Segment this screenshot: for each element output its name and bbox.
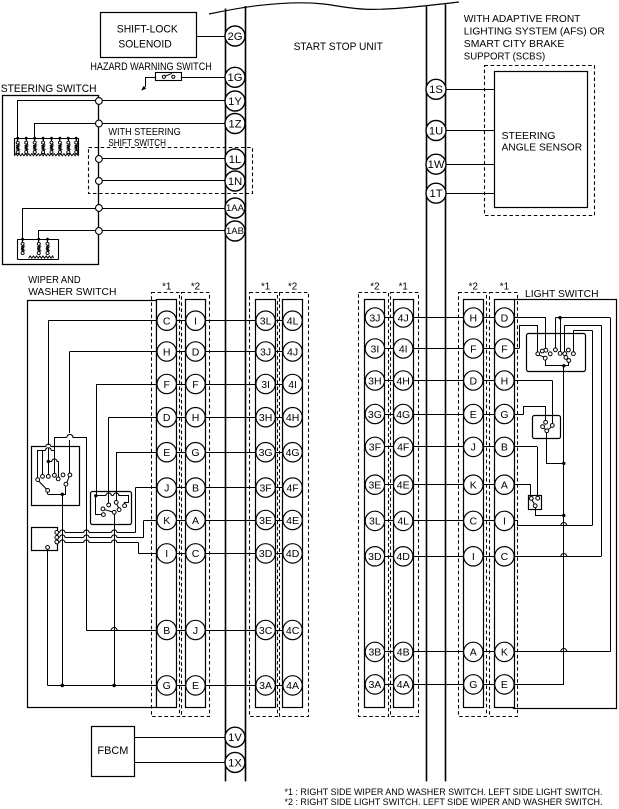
pin 1AB	[225, 221, 245, 241]
pin 1T	[426, 183, 446, 203]
wire node 1AA to audio switch	[23, 209, 96, 240]
svg-text:B: B	[163, 625, 170, 637]
terminal H	[186, 408, 205, 427]
wire pin 1U to sensor	[446, 130, 495, 132]
svg-text:4D: 4D	[396, 551, 410, 563]
wire row segment	[365, 446, 514, 448]
wiper switch I branch	[138, 543, 140, 554]
wire row segment	[365, 684, 514, 686]
svg-text:1Z: 1Z	[228, 118, 241, 130]
washer motor block 3	[32, 528, 58, 551]
svg-text:4B: 4B	[397, 647, 410, 659]
terminal 3J	[256, 342, 275, 361]
wire row 3E-4E-K-A	[365, 484, 531, 486]
wiper switch E branch	[116, 452, 118, 500]
terminal I	[495, 511, 514, 530]
crossover wire to I	[58, 542, 61, 544]
svg-text:G: G	[163, 680, 171, 692]
terminal 3J	[365, 308, 384, 327]
node 1N on steering switch	[96, 178, 103, 185]
svg-text:*2: *2	[370, 282, 379, 293]
svg-text:*1: *1	[162, 282, 171, 293]
svg-text:4J: 4J	[398, 312, 409, 324]
option dashed box (AFS/SCBS)	[485, 66, 595, 216]
svg-text:STEERING SWITCH: STEERING SWITCH	[1, 83, 97, 95]
svg-text:3G: 3G	[368, 409, 382, 421]
terminal 3A	[365, 675, 384, 694]
wire harness curve (top)	[209, 2, 459, 14]
steering angle sensor box	[495, 72, 588, 208]
wire row E-G-3G-4G	[116, 452, 302, 454]
terminal E	[495, 675, 514, 694]
wire row segment	[365, 317, 514, 319]
pin 1Y	[225, 91, 245, 111]
svg-text:H: H	[501, 375, 509, 387]
svg-text:I: I	[503, 516, 506, 528]
terminal 4G	[394, 404, 413, 423]
terminal I	[464, 547, 483, 566]
svg-text:1G: 1G	[228, 72, 243, 84]
wiper switch bracket 1	[38, 451, 46, 478]
svg-text:C: C	[192, 548, 200, 560]
wire row F-F-3I-4I	[96, 384, 302, 386]
pin 1X	[225, 752, 245, 772]
svg-text:1N: 1N	[228, 176, 242, 188]
wiper switch contact block 1	[32, 447, 80, 506]
svg-text:LIGHT SWITCH: LIGHT SWITCH	[525, 289, 599, 300]
connector column *2 dashed box	[280, 293, 309, 717]
wire washer block to G row	[47, 549, 49, 685]
svg-text:4D: 4D	[286, 548, 300, 560]
svg-text:A: A	[192, 515, 199, 527]
terminal 4E	[394, 475, 413, 494]
terminal 4I	[283, 374, 302, 393]
svg-text:4J: 4J	[287, 346, 298, 358]
pin 1W	[426, 154, 446, 174]
terminal 4J	[394, 308, 413, 327]
svg-text:1L: 1L	[229, 154, 241, 166]
wire row 3D-4D-I-C	[365, 556, 601, 558]
crossover on B row	[111, 628, 117, 631]
light switch contact block 2	[533, 416, 561, 439]
wiper switch K branch	[143, 521, 145, 538]
terminal K	[464, 475, 483, 494]
light switch rail	[545, 365, 569, 367]
svg-text:E: E	[501, 679, 508, 691]
terminal 4D	[394, 547, 413, 566]
svg-text:1Y: 1Y	[228, 96, 242, 108]
wire row segment	[365, 651, 514, 653]
terminal C	[464, 511, 483, 530]
terminal A	[495, 475, 514, 494]
terminal 4J	[283, 342, 302, 361]
wiper switch common rail	[48, 494, 66, 496]
svg-text:4C: 4C	[286, 625, 300, 637]
svg-text:3I: 3I	[371, 343, 380, 355]
terminal F	[157, 374, 176, 393]
svg-text:4E: 4E	[286, 515, 299, 527]
svg-text:1V: 1V	[228, 732, 242, 744]
terminal J	[186, 620, 205, 639]
svg-text:3F: 3F	[259, 482, 271, 494]
node 1L on steering switch	[96, 156, 103, 163]
svg-text:FBCM: FBCM	[97, 745, 128, 757]
pin 1AA	[225, 198, 245, 218]
terminal 3I	[256, 374, 275, 393]
washer switch contact block 2	[91, 492, 132, 525]
terminal 3D	[256, 544, 275, 563]
wire row G-E-3A-4A	[48, 685, 303, 687]
connector column *1 dashed box	[250, 293, 278, 717]
terminal J	[157, 478, 176, 497]
terminal G	[495, 404, 514, 423]
svg-text:3D: 3D	[259, 548, 273, 560]
shift-lock solenoid box	[101, 13, 197, 58]
terminal 4H	[283, 408, 302, 427]
wire node 1Z to pin 1Z	[102, 123, 225, 125]
terminal C	[495, 547, 514, 566]
svg-text:I: I	[194, 316, 197, 328]
crossover on I row	[561, 523, 567, 526]
svg-text:J: J	[193, 625, 198, 637]
terminal 4L	[283, 311, 302, 330]
svg-text:A: A	[470, 647, 477, 659]
svg-text:*2: *2	[191, 282, 200, 293]
crossover on K row	[561, 649, 567, 652]
wire right bus line 1	[426, 7, 428, 782]
terminal 3L	[365, 511, 384, 530]
wire node 1N to pin 1N	[102, 180, 225, 182]
terminal E	[186, 676, 205, 695]
wiper switch J branch	[135, 488, 137, 533]
pin 1Z	[225, 114, 245, 134]
wire row segment	[151, 487, 302, 489]
terminal 3I	[365, 339, 384, 358]
svg-text:1W: 1W	[428, 159, 445, 171]
terminal G	[464, 675, 483, 694]
connector column body	[495, 300, 515, 708]
terminal 3B	[365, 642, 384, 661]
hazard warning switch symbol	[156, 73, 182, 81]
svg-text:1S: 1S	[429, 84, 443, 96]
node 1AB on steering switch	[96, 228, 103, 235]
svg-text:SHIFT-LOCK: SHIFT-LOCK	[117, 23, 178, 35]
wire left bus line 2	[245, 6, 247, 781]
svg-text:D: D	[501, 312, 509, 324]
svg-text:C: C	[470, 516, 478, 528]
terminal D	[495, 308, 514, 327]
svg-text:4H: 4H	[286, 412, 299, 424]
connector column body	[394, 300, 414, 708]
wire node 1L to pin 1L	[102, 158, 225, 160]
svg-text:4E: 4E	[397, 480, 410, 492]
wiper switch F branch	[96, 384, 98, 496]
wire row D-H-3H-4H	[109, 417, 303, 419]
terminal G	[186, 443, 205, 462]
wire row segment	[365, 520, 514, 522]
node 1Y on steering switch	[96, 98, 103, 105]
svg-text:3G: 3G	[259, 447, 273, 459]
svg-text:H: H	[163, 346, 171, 358]
terminal 3F	[365, 437, 384, 456]
wire row segment	[151, 452, 302, 454]
pin 1U	[426, 121, 446, 141]
svg-text:3J: 3J	[260, 346, 271, 358]
svg-text:WITH ADAPTIVE FRONT: WITH ADAPTIVE FRONT	[464, 14, 581, 25]
svg-text:F: F	[192, 379, 198, 391]
terminal B	[157, 620, 176, 639]
svg-text:4F: 4F	[286, 482, 298, 494]
wire right bus line 2	[445, 5, 447, 782]
pin 1S	[426, 79, 446, 99]
svg-text:LIGHTING SYSTEM (AFS) OR: LIGHTING SYSTEM (AFS) OR	[464, 27, 605, 38]
svg-text:E: E	[470, 409, 477, 421]
svg-text:3I: 3I	[261, 379, 270, 391]
svg-text:A: A	[501, 480, 508, 492]
svg-text:3A: 3A	[259, 680, 272, 692]
terminal 4G	[283, 443, 302, 462]
svg-text:WASHER SWITCH: WASHER SWITCH	[28, 287, 116, 298]
connector column *2 dashed box	[459, 293, 487, 717]
svg-text:3L: 3L	[369, 516, 381, 528]
wire row segment	[365, 556, 514, 558]
terminal C	[186, 544, 205, 563]
terminal 3E	[256, 510, 275, 529]
svg-text:4L: 4L	[397, 516, 409, 528]
wire row 3B-4B-A-K	[365, 651, 610, 653]
wire node 1Y to pin 1Y	[102, 100, 225, 102]
svg-text:3E: 3E	[259, 515, 272, 527]
steering audio switch resistor block	[18, 239, 59, 241]
wire row J-B-3F-4F	[136, 487, 303, 489]
svg-text:3B: 3B	[368, 647, 381, 659]
terminal 4C	[283, 620, 302, 639]
FBCM box	[92, 727, 135, 777]
terminal D	[157, 408, 176, 427]
washer switch common wire down	[114, 514, 116, 685]
terminal D	[464, 371, 483, 390]
terminal D	[186, 342, 205, 361]
svg-text:ANGLE SENSOR: ANGLE SENSOR	[502, 143, 583, 154]
terminal 4H	[394, 371, 413, 390]
svg-text:F: F	[470, 343, 476, 355]
terminal I	[157, 544, 176, 563]
svg-text:*2: *2	[469, 282, 478, 293]
svg-text:K: K	[163, 515, 170, 527]
svg-text:H: H	[470, 312, 478, 324]
wire FBCM to pin 1X	[134, 762, 225, 764]
pin 1N	[225, 171, 245, 191]
connector column body	[256, 300, 276, 708]
block 2 common down	[547, 433, 564, 464]
terminal A	[186, 510, 205, 529]
svg-text:J: J	[471, 442, 476, 454]
svg-text:*2 : RIGHT SIDE LIGHT SWITCH.: *2 : RIGHT SIDE LIGHT SWITCH. LEFT SIDE …	[285, 796, 603, 807]
connector column body	[283, 300, 303, 708]
pin 1L	[225, 149, 245, 169]
wire row 3J-4J-H-D	[365, 317, 546, 319]
svg-text:3H: 3H	[259, 412, 272, 424]
wire row 3F-4F-J-B	[365, 446, 537, 448]
wiper and washer switch box	[28, 301, 157, 708]
svg-text:B: B	[501, 442, 508, 454]
wire row segment	[151, 384, 302, 386]
svg-text:SMART CITY BRAKE: SMART CITY BRAKE	[464, 39, 565, 50]
light switch F line	[520, 326, 538, 352]
svg-text:4A: 4A	[286, 680, 299, 692]
svg-text:3E: 3E	[368, 480, 381, 492]
terminal 3G	[256, 443, 275, 462]
wiper switch arm	[39, 481, 47, 489]
wire node 1AB to audio switch	[39, 231, 96, 240]
wire left bus line 1 (START STOP UNIT trunk)	[225, 9, 227, 782]
light switch G line	[524, 407, 546, 421]
wire steering switch internal to node 1Y	[18, 101, 96, 139]
crossover wire to K	[58, 537, 61, 539]
connector column *2 dashed box	[359, 293, 389, 717]
wire FBCM to pin 1V	[134, 737, 225, 739]
wire solenoid to pin 2G	[197, 36, 225, 38]
terminal 4A	[283, 676, 302, 695]
svg-text:C: C	[163, 316, 171, 328]
crossover on C row	[561, 554, 567, 557]
svg-text:HAZARD WARNING SWITCH: HAZARD WARNING SWITCH	[90, 61, 211, 73]
svg-text:D: D	[192, 346, 200, 358]
terminal 4F	[283, 478, 302, 497]
wire row 3I-4I-F-F	[365, 348, 519, 350]
svg-text:1T: 1T	[429, 188, 442, 200]
terminal 4L	[394, 511, 413, 530]
svg-text:I: I	[472, 551, 475, 563]
junctions on G row	[61, 684, 65, 688]
wire row 3H-4H-D-H	[365, 380, 552, 382]
pin 2G	[225, 26, 245, 46]
wire row H-D-3J-4J	[70, 351, 303, 353]
svg-text:E: E	[192, 680, 199, 692]
terminal A	[464, 642, 483, 661]
svg-text:3C: 3C	[259, 625, 273, 637]
wire hazard switch to pin 1G	[182, 77, 226, 79]
light switch B line	[537, 447, 539, 496]
node 1Z on steering switch	[96, 120, 103, 127]
svg-text:4G: 4G	[396, 409, 410, 421]
svg-text:STEERING: STEERING	[502, 131, 556, 142]
svg-text:WIPER AND: WIPER AND	[28, 275, 80, 286]
wire row 3L-4L-C-I	[365, 520, 514, 522]
svg-text:G: G	[469, 679, 477, 691]
wire row segment	[151, 320, 302, 322]
wiper switch bracket wire to contact	[48, 461, 52, 463]
terminal 3A	[256, 676, 275, 695]
light switch arm 1	[539, 355, 544, 357]
block 3 common down	[536, 508, 564, 516]
svg-text:1U: 1U	[429, 125, 443, 137]
svg-text:WITH STEERING: WITH STEERING	[108, 127, 180, 138]
svg-text:D: D	[163, 412, 171, 424]
terminal I	[186, 311, 205, 330]
wire node 1AB to pin 1AB	[102, 230, 225, 232]
terminal K	[495, 642, 514, 661]
wire row 3A-4A-G-E	[365, 684, 564, 686]
wire row segment	[151, 685, 302, 687]
svg-text:K: K	[470, 480, 477, 492]
wire row K-A-3E-4E	[144, 520, 303, 522]
wire row segment	[151, 630, 302, 632]
terminal K	[157, 510, 176, 529]
terminal 4B	[394, 642, 413, 661]
svg-text:4H: 4H	[396, 375, 409, 387]
wire row segment	[365, 380, 514, 382]
junction on C branch	[47, 460, 50, 463]
svg-text:*1: *1	[261, 282, 270, 293]
crossover wire to J	[58, 532, 61, 534]
svg-text:4I: 4I	[399, 343, 408, 355]
wire row I-C-3D-4D	[139, 553, 303, 555]
svg-text:3F: 3F	[369, 442, 381, 454]
svg-text:I: I	[165, 548, 168, 560]
svg-text:B: B	[192, 482, 199, 494]
svg-text:2G: 2G	[228, 31, 243, 43]
connector column body	[186, 300, 206, 708]
pin 1V	[225, 727, 245, 747]
steering switch box	[3, 96, 99, 265]
terminal E	[157, 443, 176, 462]
svg-text:3A: 3A	[368, 679, 381, 691]
svg-text:4A: 4A	[397, 679, 410, 691]
svg-text:*2: *2	[288, 282, 297, 293]
terminal 4A	[394, 675, 413, 694]
terminal F	[464, 339, 483, 358]
terminal J	[464, 437, 483, 456]
wiper switch D branch	[108, 417, 110, 503]
svg-text:1AA: 1AA	[226, 203, 245, 213]
svg-text:3J: 3J	[369, 312, 380, 324]
svg-text:SUPPORT (SCBS): SUPPORT (SCBS)	[464, 52, 545, 63]
terminal 3H	[256, 408, 275, 427]
light switch K line	[555, 317, 610, 319]
terminal G	[157, 676, 176, 695]
terminal B	[186, 478, 205, 497]
connector column body	[365, 300, 385, 708]
terminal H	[464, 308, 483, 327]
svg-text:E: E	[163, 447, 170, 459]
svg-text:F: F	[501, 343, 507, 355]
light switch contact block 3	[529, 496, 542, 510]
wire pin 1T to sensor	[446, 193, 495, 195]
connector column body	[157, 300, 177, 708]
light switch H line	[552, 381, 554, 424]
svg-text:3L: 3L	[260, 316, 272, 328]
svg-text:SOLENOID: SOLENOID	[118, 38, 172, 50]
light switch common wire	[563, 366, 565, 685]
svg-text:F: F	[163, 379, 169, 391]
light switch I line	[573, 330, 592, 332]
light switch C line	[565, 325, 602, 327]
svg-text:4G: 4G	[286, 447, 300, 459]
connector column *1 dashed box	[490, 293, 518, 717]
wire row segment	[365, 414, 514, 416]
svg-text:4I: 4I	[288, 379, 297, 391]
connector column *1 dashed box	[391, 293, 419, 717]
terminal B	[495, 437, 514, 456]
svg-text:C: C	[501, 551, 509, 563]
svg-text:J: J	[164, 482, 169, 494]
steering switch resistor ladder	[14, 138, 78, 140]
washer switch internal wiring	[96, 495, 106, 497]
connector column *2 dashed box	[182, 293, 210, 717]
light switch contact block 1	[527, 334, 586, 372]
connector column *1 dashed box	[152, 293, 180, 717]
